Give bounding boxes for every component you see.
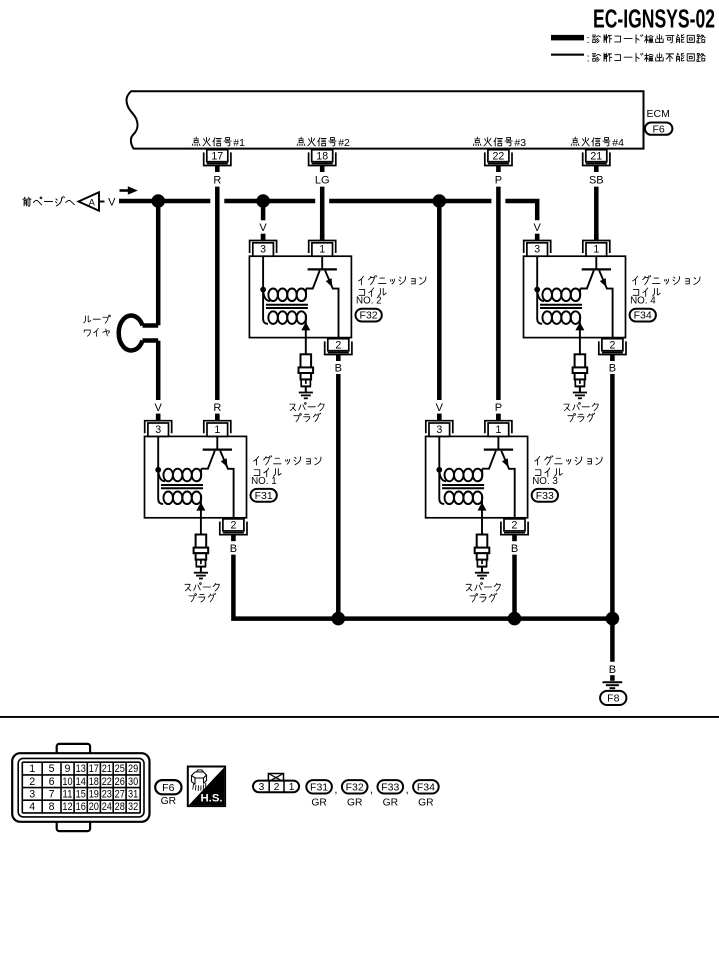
connector ref F31 with color GR (306, 780, 337, 808)
svg-text:V: V (155, 402, 163, 414)
high tension arrow to spark plug (478, 502, 487, 534)
junction dot V bus coil3 (433, 194, 447, 208)
node primary tap dot (436, 467, 442, 473)
ECM connector F6 face view (12, 744, 149, 831)
title EC-IGNSYS-02 (593, 3, 715, 33)
coil NO.2 pin 2 (325, 339, 352, 361)
label spark plug (564, 402, 598, 421)
transformer T4 primary winding (537, 289, 580, 302)
transformer T1 secondary winding (163, 492, 201, 507)
label ignition signal #1 (192, 137, 245, 149)
svg-text:9: 9 (65, 763, 71, 775)
svg-text:3: 3 (259, 782, 265, 793)
coil NO.1 pin 1 (204, 414, 231, 436)
node A from previous page (23, 192, 116, 211)
connector ref F33 with color GR (378, 780, 409, 808)
svg-text:R: R (213, 174, 221, 186)
svg-text:NO. 4: NO. 4 (630, 296, 656, 307)
svg-text:V: V (534, 222, 542, 234)
wire V down to coil NO.2 pin 3 (259, 201, 267, 241)
svg-text:18: 18 (316, 150, 328, 162)
connector ref F34 with color GR (413, 780, 439, 808)
high tension arrow to spark plug (196, 502, 205, 534)
svg-text:,: , (370, 784, 373, 796)
svg-text:17: 17 (211, 150, 223, 162)
svg-text:20: 20 (89, 801, 99, 813)
svg-text:,: , (406, 784, 409, 796)
svg-text:26: 26 (115, 776, 125, 788)
svg-text:22: 22 (493, 150, 505, 162)
label wire color R (213, 174, 221, 186)
svg-text:V: V (108, 197, 116, 209)
ignition coil NO.4 box (524, 256, 626, 337)
transformer T3 core (442, 485, 484, 488)
connector ref F6 (ECM) (645, 123, 673, 136)
wire V down to coil NO.3 pin 3 (436, 201, 444, 420)
junction dot V bus coil2 (256, 194, 270, 208)
svg-text:F31: F31 (255, 490, 273, 502)
connector ref F34 (630, 309, 656, 322)
wire R from ECM pin 17 (213, 187, 221, 421)
wire pin3 to transformer T2 (263, 256, 268, 324)
svg-text:H.S.: H.S. (201, 793, 223, 805)
svg-text:21: 21 (590, 150, 602, 162)
junction dot B bus right (606, 612, 620, 626)
svg-text:10: 10 (62, 776, 72, 788)
ignition coil NO.1 box (145, 436, 247, 517)
svg-text:B: B (335, 362, 342, 374)
power transistor Q2 (306, 256, 339, 337)
svg-text:23: 23 (102, 789, 112, 801)
svg-text:3: 3 (534, 244, 540, 256)
svg-text:NO. 1: NO. 1 (251, 476, 277, 487)
power transistor Q1 (201, 436, 234, 517)
legend thin line: non-diagnosable circuit (551, 53, 705, 65)
label ignition coil NO.2 (356, 275, 426, 306)
label wire color LG (315, 174, 330, 186)
connector ref F32 with color GR (342, 780, 373, 808)
connector ref F8 (600, 691, 626, 705)
coil NO.2 pin 1 (309, 234, 336, 256)
svg-text:17: 17 (89, 763, 99, 775)
svg-text:21: 21 (102, 763, 112, 775)
svg-text:F32: F32 (360, 310, 378, 322)
label spark plug (290, 402, 324, 421)
transformer T3 secondary winding (445, 492, 483, 507)
transformer T2 core (266, 305, 308, 308)
label loop wire (84, 315, 111, 336)
svg-text:LG: LG (315, 174, 330, 186)
coil NO.3 pin 2 (501, 519, 528, 541)
ECM pin 18 (309, 150, 336, 172)
svg-text:3: 3 (260, 244, 266, 256)
label ignition coil NO.3 (532, 456, 602, 487)
svg-text:25: 25 (115, 763, 125, 775)
ECM pin 17 (204, 150, 231, 172)
transformer T2 secondary winding (268, 311, 306, 326)
high tension arrow to spark plug (301, 322, 310, 354)
label ignition coil NO.4 (630, 275, 700, 306)
connector ref F31 (251, 489, 277, 502)
coil NO.4 pin 2 (599, 339, 626, 361)
label ignition coil NO.1 (251, 456, 321, 487)
svg-text:#4: #4 (612, 137, 624, 149)
label wire color P (495, 174, 502, 186)
label spark plug (185, 583, 219, 602)
svg-text:#3: #3 (514, 137, 526, 149)
ECM pin 22 (485, 150, 512, 172)
node primary tap dot (534, 287, 540, 293)
svg-text:18: 18 (89, 776, 99, 788)
spark plug of coil NO.1 (194, 535, 209, 579)
coil NO.2 pin 3 (250, 234, 277, 256)
label spark plug (466, 583, 500, 602)
svg-text:#2: #2 (338, 137, 350, 149)
wire B from coil NO.4 (609, 362, 616, 662)
svg-text:30: 30 (128, 776, 138, 788)
connector ref F6 with color GR (155, 780, 181, 807)
node primary tap dot (260, 287, 266, 293)
svg-text:2: 2 (29, 776, 35, 788)
svg-text:3: 3 (29, 789, 35, 801)
svg-text:24: 24 (102, 801, 112, 813)
svg-text:3: 3 (436, 424, 442, 436)
svg-text:F33: F33 (381, 781, 399, 793)
wire LG from ECM pin 18 (320, 187, 325, 241)
svg-text:7: 7 (49, 789, 55, 801)
label ECM (647, 108, 670, 120)
svg-text:F31: F31 (310, 781, 328, 793)
svg-text:6: 6 (49, 776, 55, 788)
svg-text:V: V (436, 402, 444, 414)
ignition coil NO.3 box (426, 436, 528, 517)
svg-text:F34: F34 (634, 310, 652, 322)
ground F8 (603, 675, 623, 688)
svg-text:NO. 3: NO. 3 (532, 476, 558, 487)
svg-text:GR: GR (418, 797, 433, 808)
svg-text:A: A (89, 196, 96, 207)
wire pin3 to transformer T3 (439, 436, 444, 504)
svg-text:NO. 2: NO. 2 (356, 296, 382, 307)
coil NO.3 pin 3 (426, 414, 453, 436)
svg-text:1: 1 (319, 244, 325, 256)
label ignition signal #4 (571, 137, 624, 149)
svg-text:B: B (230, 543, 237, 555)
svg-text:1: 1 (29, 763, 35, 775)
coil connector face view 3-2-1 (253, 774, 299, 794)
svg-text:B: B (609, 664, 616, 676)
svg-text:28: 28 (115, 801, 125, 813)
svg-text:31: 31 (128, 789, 138, 801)
svg-text:,: , (334, 784, 337, 796)
wire V bus horizontal (119, 201, 537, 220)
power transistor Q4 (580, 256, 613, 337)
svg-text:2: 2 (274, 782, 280, 793)
svg-text::: : (587, 34, 590, 46)
coil NO.4 pin 3 (524, 234, 551, 256)
svg-text:2: 2 (512, 520, 518, 532)
connector ref F33 (532, 489, 558, 502)
svg-text:P: P (495, 402, 502, 414)
ignition coil NO.2 box (249, 256, 351, 337)
flow direction arrow (120, 186, 138, 194)
svg-text:P: P (495, 174, 502, 186)
svg-text:F8: F8 (607, 693, 619, 705)
transformer T1 core (161, 485, 203, 488)
loop wire (119, 316, 158, 351)
svg-text:V: V (259, 222, 267, 234)
wire V down to coil NO.1 (155, 201, 163, 420)
svg-text:2: 2 (230, 520, 236, 532)
svg-text:27: 27 (115, 789, 125, 801)
svg-text:12: 12 (62, 801, 72, 813)
svg-text:1: 1 (214, 424, 220, 436)
svg-text:F6: F6 (162, 782, 174, 794)
coil NO.3 pin 1 (485, 414, 512, 436)
transformer T4 core (540, 305, 582, 308)
svg-text:SB: SB (589, 174, 604, 186)
transformer T4 secondary winding (542, 311, 580, 326)
transformer T1 primary winding (158, 469, 201, 482)
label wire color SB (589, 174, 604, 186)
ECM box with torn left edge (126, 91, 643, 148)
svg-text:B: B (609, 362, 616, 374)
ECM pin 21 (583, 150, 610, 172)
spark plug of coil NO.2 (299, 354, 314, 398)
svg-text:GR: GR (383, 797, 398, 808)
label ignition signal #3 (473, 137, 526, 149)
svg-text:29: 29 (128, 763, 138, 775)
label V at coil NO.4 pin 3 (534, 222, 542, 241)
svg-text:3: 3 (155, 424, 161, 436)
svg-text:1: 1 (495, 424, 501, 436)
wire pin3 to transformer T1 (158, 436, 163, 504)
svg-text:15: 15 (76, 789, 86, 801)
high tension arrow to spark plug (575, 322, 584, 354)
coil NO.1 pin 3 (145, 414, 172, 436)
svg-text:2: 2 (609, 339, 615, 351)
svg-text:14: 14 (76, 776, 86, 788)
label ignition signal #2 (297, 137, 350, 149)
connector ref F32 (356, 309, 382, 322)
svg-text:1: 1 (289, 782, 295, 793)
svg-text:2: 2 (335, 339, 341, 351)
wire B from coil NO.2 (335, 362, 342, 618)
svg-text:8: 8 (49, 801, 55, 813)
svg-text:11: 11 (62, 789, 72, 801)
wire P from ECM pin 22 (495, 187, 502, 421)
legend thick line: diagnosable circuit (551, 34, 705, 46)
wire SB from ECM pin 21 (594, 187, 599, 241)
svg-text:F32: F32 (346, 781, 364, 793)
svg-text:F34: F34 (417, 781, 435, 793)
svg-text:4: 4 (29, 801, 35, 813)
svg-text:F33: F33 (536, 490, 554, 502)
svg-text:32: 32 (128, 801, 138, 813)
svg-text:19: 19 (89, 789, 99, 801)
svg-text:B: B (511, 543, 518, 555)
svg-text:GR: GR (161, 796, 176, 807)
wire B from coil NO.3 (511, 543, 518, 619)
node primary tap dot (155, 467, 161, 473)
svg-text:GR: GR (311, 797, 326, 808)
svg-text:F6: F6 (652, 123, 664, 135)
svg-text:EC-IGNSYS-02: EC-IGNSYS-02 (593, 3, 715, 33)
svg-text:16: 16 (76, 801, 86, 813)
svg-text::: : (587, 53, 590, 65)
svg-text:ECM: ECM (647, 108, 670, 120)
svg-text:1: 1 (593, 244, 599, 256)
label B at ground (609, 664, 616, 676)
junction dot B bus coil3 (508, 612, 522, 626)
spark plug of coil NO.4 (573, 354, 588, 398)
svg-text:GR: GR (347, 797, 362, 808)
wire B from coil NO.1 (230, 543, 613, 619)
power transistor Q3 (482, 436, 515, 517)
junction dot V bus left (151, 194, 165, 208)
transformer T2 primary winding (263, 289, 306, 302)
svg-text:5: 5 (49, 763, 55, 775)
junction dot B bus coil2 (332, 612, 346, 626)
coil NO.1 pin 2 (220, 519, 247, 541)
svg-text:R: R (213, 402, 221, 414)
wire pin3 to transformer T4 (537, 256, 542, 324)
spark plug of coil NO.3 (475, 535, 490, 579)
svg-text:#1: #1 (233, 137, 245, 149)
separator line (0, 716, 719, 718)
coil NO.4 pin 1 (583, 234, 610, 256)
svg-text:22: 22 (102, 776, 112, 788)
transformer T3 primary winding (439, 469, 482, 482)
harness symbol H.S. (188, 767, 225, 807)
svg-text:13: 13 (76, 763, 86, 775)
